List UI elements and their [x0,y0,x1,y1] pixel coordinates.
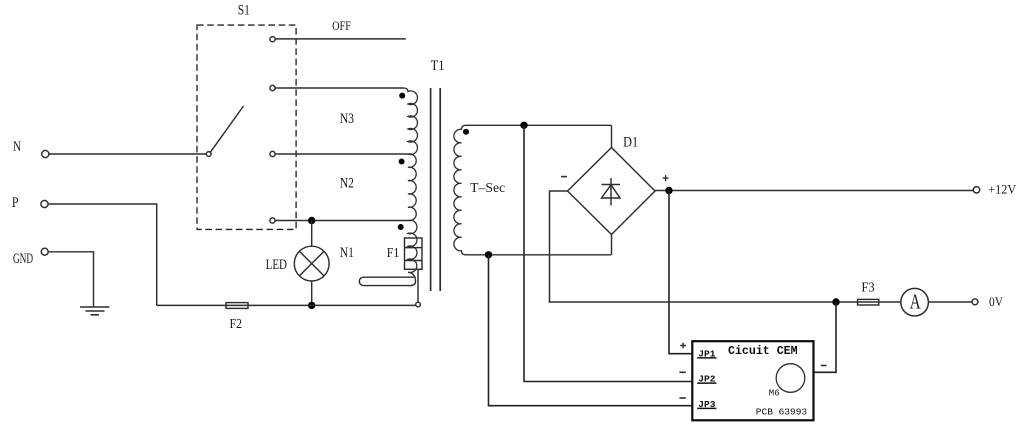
label N2 [340,174,354,191]
wire module output to 0V rail [814,302,837,372]
bottom rail wire [157,304,416,306]
label N [13,137,21,154]
junction dot lamp/bottom rail [308,302,315,309]
transformer T1 primary winding [404,88,418,273]
lamp N1 [294,246,329,281]
terminal +12V [973,187,979,193]
switch S1 common terminal [206,152,211,157]
svg-text:N3: N3 [340,109,354,126]
primary phase dot top [399,93,405,99]
wire P to bottom rail [48,204,157,305]
label minus at JP2 [679,371,685,373]
transformer T1 label [431,57,445,73]
label OFF [332,19,351,33]
svg-text:M6: M6 [769,388,780,398]
svg-text:N1: N1 [340,244,354,261]
plug terminal [416,302,421,307]
wire GND to earth [48,252,93,307]
wire JP1 from plus output [669,191,692,354]
transformer core line left [430,88,432,291]
wire tap3 to winding N3/N2 tap [275,153,408,155]
wire +12V output [655,190,973,192]
label LED [266,255,287,272]
label F3 [861,279,875,295]
label P [12,194,19,211]
wire N to switch common [49,153,206,155]
wire tap2 to winding N3 top [275,87,403,89]
lamp N1 wire bottom [311,281,313,305]
svg-text:+12V: +12V [988,183,1016,197]
wire OFF [275,38,406,40]
lamp N1 wire top [311,221,313,247]
fuse F1 body [405,238,423,269]
switch S1 dashed enclosure [197,25,296,229]
svg-text:LED: LED [266,255,287,272]
bridge diode symbol [602,178,621,206]
wire F1 to plug terminal [417,269,419,302]
transformer T1 secondary winding [454,125,612,255]
terminal N [42,150,49,157]
pin JP3 [697,399,716,410]
svg-text:Cicuit CEM: Cicuit CEM [728,345,798,358]
label F1 [387,244,400,260]
pin JP2 [697,374,716,385]
label PCB 63993 [756,407,808,418]
junction dot tap4/LED [308,217,315,224]
svg-text:0V: 0V [989,294,1003,309]
switch S1 throw terminal OFF [270,37,275,42]
junction dot plus output [665,187,672,194]
transformer core line right [439,88,441,291]
ground [80,307,110,315]
fuse F2 [226,303,248,309]
label minus at JP3 [679,397,685,399]
switch S1 throw terminal tap2 [270,85,275,90]
svg-text:T1: T1 [431,57,445,73]
label plus at JP1 [680,343,686,349]
junction dot secondary bottom / JP3 [485,251,492,258]
wire secondary top to bridge [611,125,613,147]
svg-text:N2: N2 [340,174,354,191]
terminal P [41,200,48,207]
svg-text:T–Sec: T–Sec [470,180,505,195]
label S1 [238,1,250,18]
label N1 [340,244,354,261]
label N3 [340,109,354,126]
wire bridge bottom to secondary bottom [611,235,613,255]
label +12V [988,183,1016,197]
junction dot 0V / module [832,298,839,305]
label F2 [230,315,243,331]
terminal 0V [972,299,978,305]
svg-text:S1: S1 [238,1,250,18]
label D1 [623,133,638,149]
switch S1 throw terminal tap4 [270,218,275,223]
switch S1 blade [211,106,244,152]
label minus module output [821,365,827,367]
svg-text:F1: F1 [387,244,400,260]
terminal GND [41,248,48,255]
label Cicuit CEM [728,345,798,358]
label bridge minus [561,176,567,178]
wire tap4 to winding N2/N1 tap [275,220,408,222]
fuse F3 [858,299,879,305]
svg-text:N: N [13,137,21,154]
svg-text:OFF: OFF [332,19,351,33]
bridge rectifier D1 [568,148,656,235]
secondary phase dot [463,129,469,135]
wire JP2 [524,125,692,381]
wire 0V rail from bridge minus [550,191,973,302]
svg-text:F3: F3 [861,279,875,295]
svg-text:A: A [910,290,922,313]
module Cicuit CEM box [692,341,813,420]
svg-text:GND: GND [13,250,33,267]
primary phase dot middle [399,159,405,165]
label GND [13,250,33,267]
ammeter [901,288,929,316]
winding return bar [359,272,415,285]
label 0V [989,294,1003,309]
svg-text:F2: F2 [230,315,243,331]
svg-text:PCB 63993: PCB 63993 [756,407,808,418]
label T-Sec [470,180,505,195]
svg-text:P: P [12,194,19,211]
module circle M6 [776,364,805,393]
junction dot secondary top / JP2 [520,122,527,129]
primary phase dot bottom [398,224,404,230]
label M6 [769,388,780,398]
switch S1 throw terminal tap3 [270,151,275,156]
svg-text:D1: D1 [623,133,638,149]
label bridge plus [663,175,669,181]
pin JP1 [697,348,716,359]
wire JP3 [489,255,693,406]
